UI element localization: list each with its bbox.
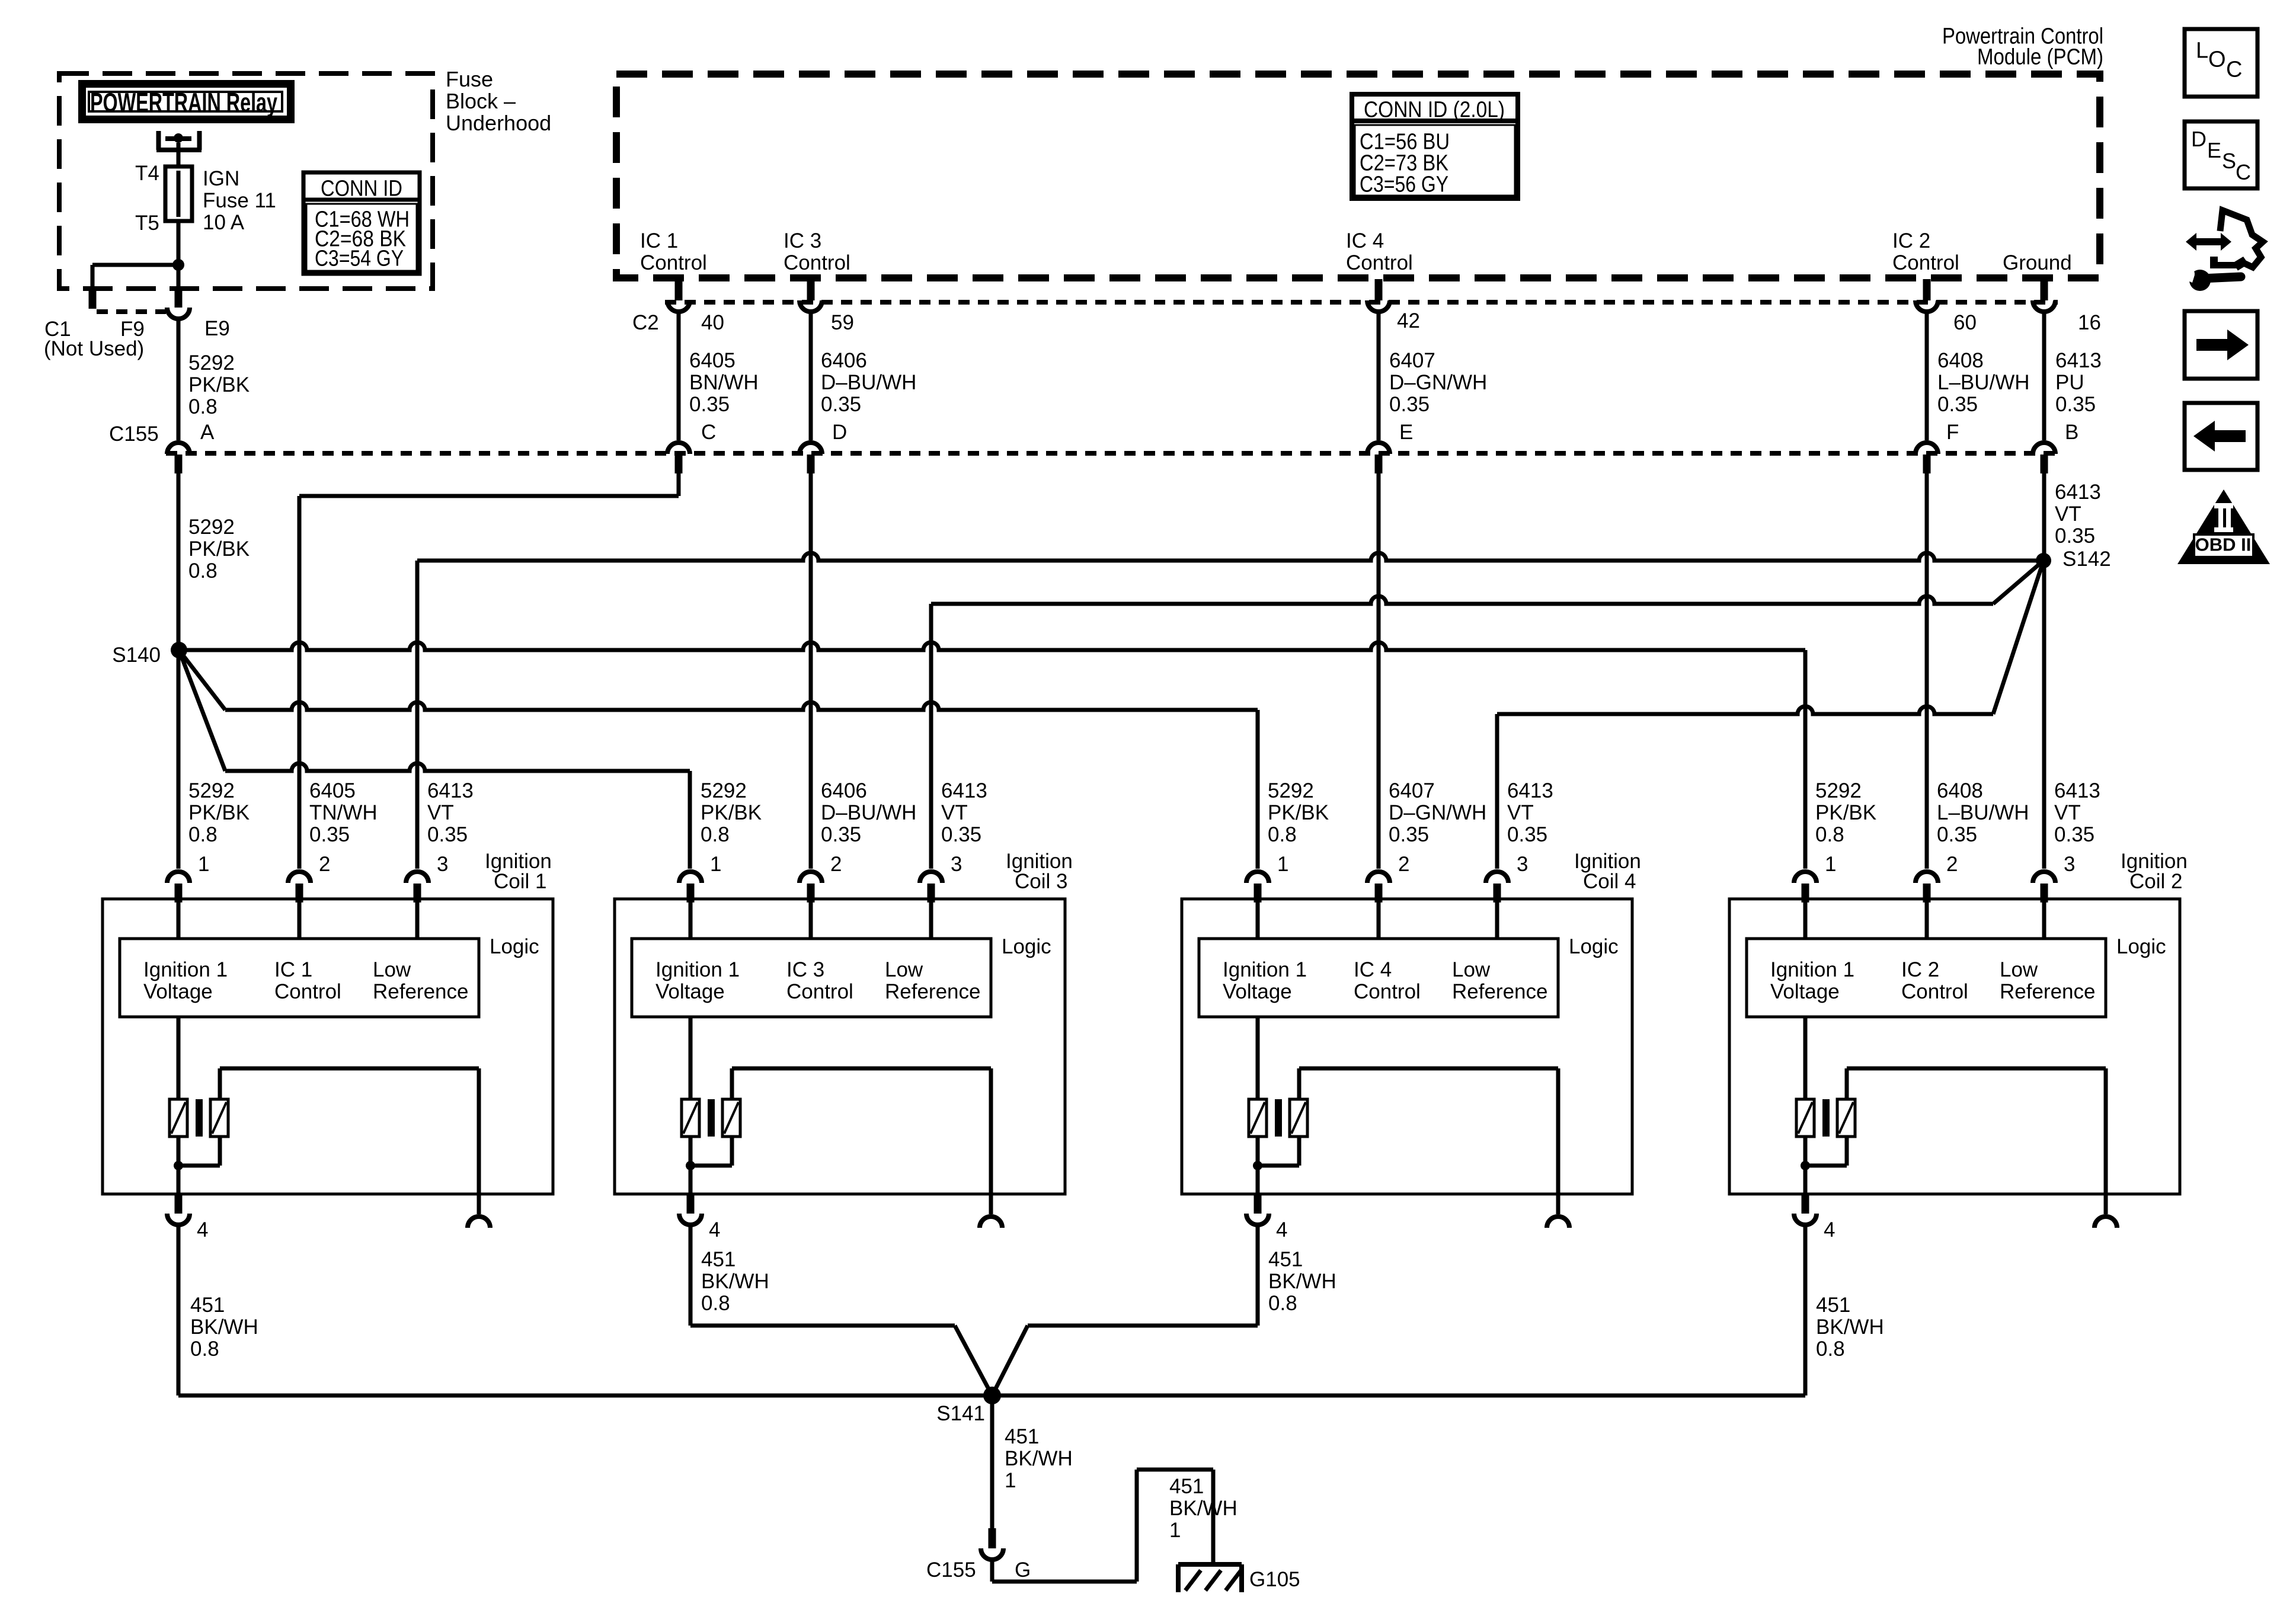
svg-text:Ground: Ground <box>2003 251 2072 274</box>
svg-text:10 A: 10 A <box>203 211 245 234</box>
svg-text:L–BU/WH: L–BU/WH <box>1937 371 2030 394</box>
svg-text:VT: VT <box>427 801 454 824</box>
svg-text:Voltage: Voltage <box>1223 980 1292 1003</box>
svg-text:D–BU/WH: D–BU/WH <box>821 371 916 394</box>
svg-text:Reference: Reference <box>2000 980 2095 1003</box>
svg-text:0.35: 0.35 <box>2055 524 2095 548</box>
svg-text:6413: 6413 <box>427 779 474 802</box>
svg-text:3: 3 <box>951 853 962 876</box>
svg-text:5292: 5292 <box>1268 779 1314 802</box>
svg-text:Reference: Reference <box>1452 980 1547 1003</box>
svg-text:T5: T5 <box>135 212 159 235</box>
svg-text:6407: 6407 <box>1389 349 1435 372</box>
svg-text:Ignition 1: Ignition 1 <box>1770 958 1854 981</box>
svg-text:Fuse: Fuse <box>446 67 493 91</box>
svg-text:0.35: 0.35 <box>1937 393 1978 416</box>
svg-text:0.35: 0.35 <box>1507 823 1547 846</box>
svg-text:0.8: 0.8 <box>188 823 218 846</box>
svg-text:E9: E9 <box>204 317 230 340</box>
svg-text:Underhood: Underhood <box>446 111 551 135</box>
svg-text:451: 451 <box>1816 1294 1850 1317</box>
svg-text:PK/BK: PK/BK <box>701 801 762 824</box>
svg-text:6407: 6407 <box>1389 779 1435 802</box>
svg-text:G105: G105 <box>1249 1568 1300 1591</box>
svg-text:451: 451 <box>701 1248 736 1271</box>
svg-text:40: 40 <box>701 311 724 334</box>
svg-text:451: 451 <box>1268 1248 1303 1271</box>
svg-text:OBD II: OBD II <box>2195 534 2252 555</box>
svg-text:F: F <box>1946 421 1959 444</box>
svg-text:L: L <box>2196 38 2208 63</box>
svg-text:6413: 6413 <box>1507 779 1553 802</box>
svg-text:PK/BK: PK/BK <box>188 373 250 396</box>
svg-text:2: 2 <box>1398 853 1409 876</box>
svg-text:2: 2 <box>830 853 842 876</box>
svg-text:60: 60 <box>1953 311 1977 334</box>
svg-text:0.8: 0.8 <box>1268 1292 1297 1315</box>
svg-text:Low: Low <box>373 958 411 981</box>
svg-text:Coil 4: Coil 4 <box>1583 870 1636 893</box>
svg-text:5292: 5292 <box>1815 779 1862 802</box>
svg-text:D–GN/WH: D–GN/WH <box>1389 371 1487 394</box>
svg-text:6408: 6408 <box>1937 779 1983 802</box>
svg-text:Control: Control <box>1901 980 1968 1003</box>
svg-text:C: C <box>2226 57 2242 82</box>
svg-text:IC 3: IC 3 <box>786 958 824 981</box>
svg-text:451: 451 <box>190 1294 225 1317</box>
svg-text:IC 4: IC 4 <box>1354 958 1392 981</box>
svg-text:Voltage: Voltage <box>143 980 213 1003</box>
svg-text:BK/WH: BK/WH <box>1005 1447 1073 1470</box>
svg-text:Logic: Logic <box>1002 935 1051 958</box>
svg-text:0.35: 0.35 <box>1389 823 1429 846</box>
svg-text:BK/WH: BK/WH <box>1268 1270 1336 1293</box>
svg-text:4: 4 <box>1824 1218 1835 1241</box>
svg-text:Block –: Block – <box>446 89 516 113</box>
svg-text:IC 2: IC 2 <box>1892 229 1930 252</box>
svg-text:59: 59 <box>831 311 854 334</box>
svg-text:VT: VT <box>941 801 968 824</box>
svg-text:6413: 6413 <box>2055 481 2101 504</box>
svg-text:6405: 6405 <box>689 349 736 372</box>
svg-text:0.35: 0.35 <box>1389 393 1430 416</box>
svg-text:Reference: Reference <box>885 980 980 1003</box>
svg-text:POWERTRAIN Relay: POWERTRAIN Relay <box>90 87 277 117</box>
svg-text:CONN ID: CONN ID <box>321 176 402 201</box>
svg-text:Coil 3: Coil 3 <box>1015 870 1067 893</box>
svg-text:E: E <box>2207 138 2221 162</box>
svg-text:0.8: 0.8 <box>1815 823 1844 846</box>
svg-text:0.8: 0.8 <box>701 1292 730 1315</box>
svg-text:F9: F9 <box>120 318 145 341</box>
svg-text:Voltage: Voltage <box>655 980 725 1003</box>
svg-text:4: 4 <box>709 1218 720 1241</box>
svg-text:BK/WH: BK/WH <box>1169 1497 1237 1520</box>
svg-text:D: D <box>2191 127 2207 151</box>
svg-text:3: 3 <box>437 853 448 876</box>
svg-text:D–BU/WH: D–BU/WH <box>821 801 916 824</box>
svg-text:S141: S141 <box>936 1402 985 1425</box>
svg-text:Logic: Logic <box>490 935 539 958</box>
svg-text:CONN ID (2.0L): CONN ID (2.0L) <box>1364 97 1505 122</box>
svg-text:Control: Control <box>274 980 341 1003</box>
svg-text:VT: VT <box>2055 502 2081 526</box>
svg-text:Control: Control <box>1892 251 1959 274</box>
svg-text:Fuse 11: Fuse 11 <box>203 189 276 212</box>
svg-text:BK/WH: BK/WH <box>1816 1315 1884 1339</box>
svg-text:IC 3: IC 3 <box>784 229 821 252</box>
svg-text:6405: 6405 <box>309 779 356 802</box>
svg-text:6408: 6408 <box>1937 349 1984 372</box>
svg-text:Logic: Logic <box>1569 935 1619 958</box>
svg-text:S140: S140 <box>112 644 161 667</box>
svg-text:PK/BK: PK/BK <box>1268 801 1329 824</box>
svg-text:0.8: 0.8 <box>188 559 218 582</box>
svg-text:D: D <box>832 421 847 444</box>
svg-text:PK/BK: PK/BK <box>188 801 250 824</box>
svg-text:T4: T4 <box>135 162 159 185</box>
svg-text:C: C <box>701 421 716 444</box>
svg-text:TN/WH: TN/WH <box>309 801 378 824</box>
svg-text:0.8: 0.8 <box>1268 823 1297 846</box>
svg-text:B: B <box>2065 421 2078 444</box>
svg-text:IC 4: IC 4 <box>1346 229 1384 252</box>
svg-text:0.35: 0.35 <box>821 823 861 846</box>
svg-text:S: S <box>2222 149 2236 173</box>
svg-text:451: 451 <box>1169 1475 1204 1498</box>
svg-text:VT: VT <box>1507 801 1534 824</box>
svg-text:0.8: 0.8 <box>188 395 218 418</box>
svg-text:IGN: IGN <box>203 167 239 190</box>
svg-text:0.35: 0.35 <box>821 393 861 416</box>
svg-text:Voltage: Voltage <box>1770 980 1840 1003</box>
svg-text:S142: S142 <box>2062 548 2111 571</box>
svg-text:L–BU/WH: L–BU/WH <box>1937 801 2029 824</box>
svg-text:Low: Low <box>1452 958 1491 981</box>
svg-text:4: 4 <box>197 1218 208 1241</box>
svg-text:C: C <box>2236 160 2251 184</box>
svg-text:0.8: 0.8 <box>190 1337 219 1361</box>
svg-text:C3=54 GY: C3=54 GY <box>315 246 404 271</box>
svg-text:6413: 6413 <box>941 779 987 802</box>
svg-text:1: 1 <box>710 853 721 876</box>
svg-text:Coil 2: Coil 2 <box>2129 870 2182 893</box>
svg-text:Ignition 1: Ignition 1 <box>655 958 740 981</box>
svg-text:VT: VT <box>2054 801 2081 824</box>
svg-text:Ignition 1: Ignition 1 <box>143 958 228 981</box>
svg-text:3: 3 <box>2064 853 2075 876</box>
svg-text:1: 1 <box>1005 1469 1016 1492</box>
svg-text:3: 3 <box>1517 853 1528 876</box>
svg-text:0.8: 0.8 <box>701 823 730 846</box>
svg-text:Control: Control <box>640 251 707 274</box>
svg-text:2: 2 <box>319 853 330 876</box>
svg-text:BK/WH: BK/WH <box>701 1270 769 1293</box>
svg-text:0.35: 0.35 <box>1937 823 1977 846</box>
svg-text:0.35: 0.35 <box>689 393 730 416</box>
svg-text:1: 1 <box>1825 853 1836 876</box>
svg-text:A: A <box>200 421 215 444</box>
svg-text:BN/WH: BN/WH <box>689 371 759 394</box>
svg-text:Ignition 1: Ignition 1 <box>1223 958 1307 981</box>
svg-text:6406: 6406 <box>821 349 867 372</box>
svg-text:BK/WH: BK/WH <box>190 1315 258 1339</box>
svg-text:Control: Control <box>784 251 850 274</box>
svg-text:PU: PU <box>2055 371 2084 394</box>
svg-text:Coil 1: Coil 1 <box>494 870 546 893</box>
svg-text:O: O <box>2208 47 2226 72</box>
svg-text:5292: 5292 <box>188 779 235 802</box>
svg-text:Control: Control <box>786 980 853 1003</box>
svg-text:Control: Control <box>1354 980 1421 1003</box>
svg-text:IC 1: IC 1 <box>274 958 312 981</box>
svg-text:5292: 5292 <box>188 351 235 375</box>
svg-text:Reference: Reference <box>373 980 468 1003</box>
svg-text:6413: 6413 <box>2054 779 2100 802</box>
svg-text:Logic: Logic <box>2116 935 2166 958</box>
svg-text:451: 451 <box>1005 1425 1039 1448</box>
svg-text:4: 4 <box>1276 1218 1287 1241</box>
svg-text:6406: 6406 <box>821 779 867 802</box>
svg-text:0.35: 0.35 <box>309 823 350 846</box>
svg-text:1: 1 <box>198 853 209 876</box>
svg-text:D–GN/WH: D–GN/WH <box>1389 801 1486 824</box>
svg-text:G: G <box>1015 1558 1031 1582</box>
svg-text:C155: C155 <box>109 422 159 446</box>
svg-text:IC 2: IC 2 <box>1901 958 1939 981</box>
svg-text:0.35: 0.35 <box>2054 823 2094 846</box>
svg-text:0.35: 0.35 <box>941 823 981 846</box>
svg-text:5292: 5292 <box>188 516 235 539</box>
svg-text:0.35: 0.35 <box>2055 393 2096 416</box>
svg-text:1: 1 <box>1169 1519 1181 1542</box>
svg-text:PK/BK: PK/BK <box>1815 801 1876 824</box>
svg-text:2: 2 <box>1946 853 1958 876</box>
svg-text:Low: Low <box>885 958 923 981</box>
svg-text:C2: C2 <box>632 311 659 334</box>
svg-text:PK/BK: PK/BK <box>188 537 250 561</box>
svg-text:Module (PCM): Module (PCM) <box>1977 44 2103 69</box>
svg-text:Control: Control <box>1346 251 1413 274</box>
svg-text:6413: 6413 <box>2055 349 2102 372</box>
svg-text:IC 1: IC 1 <box>640 229 678 252</box>
svg-text:C155: C155 <box>926 1558 976 1582</box>
svg-text:5292: 5292 <box>701 779 747 802</box>
svg-text:16: 16 <box>2078 311 2101 334</box>
svg-text:1: 1 <box>1277 853 1288 876</box>
svg-text:0.35: 0.35 <box>427 823 468 846</box>
svg-text:0.8: 0.8 <box>1816 1337 1845 1361</box>
svg-text:Low: Low <box>2000 958 2038 981</box>
svg-text:42: 42 <box>1397 309 1420 332</box>
svg-text:E: E <box>1399 421 1413 444</box>
svg-text:C3=56 GY: C3=56 GY <box>1360 172 1448 197</box>
